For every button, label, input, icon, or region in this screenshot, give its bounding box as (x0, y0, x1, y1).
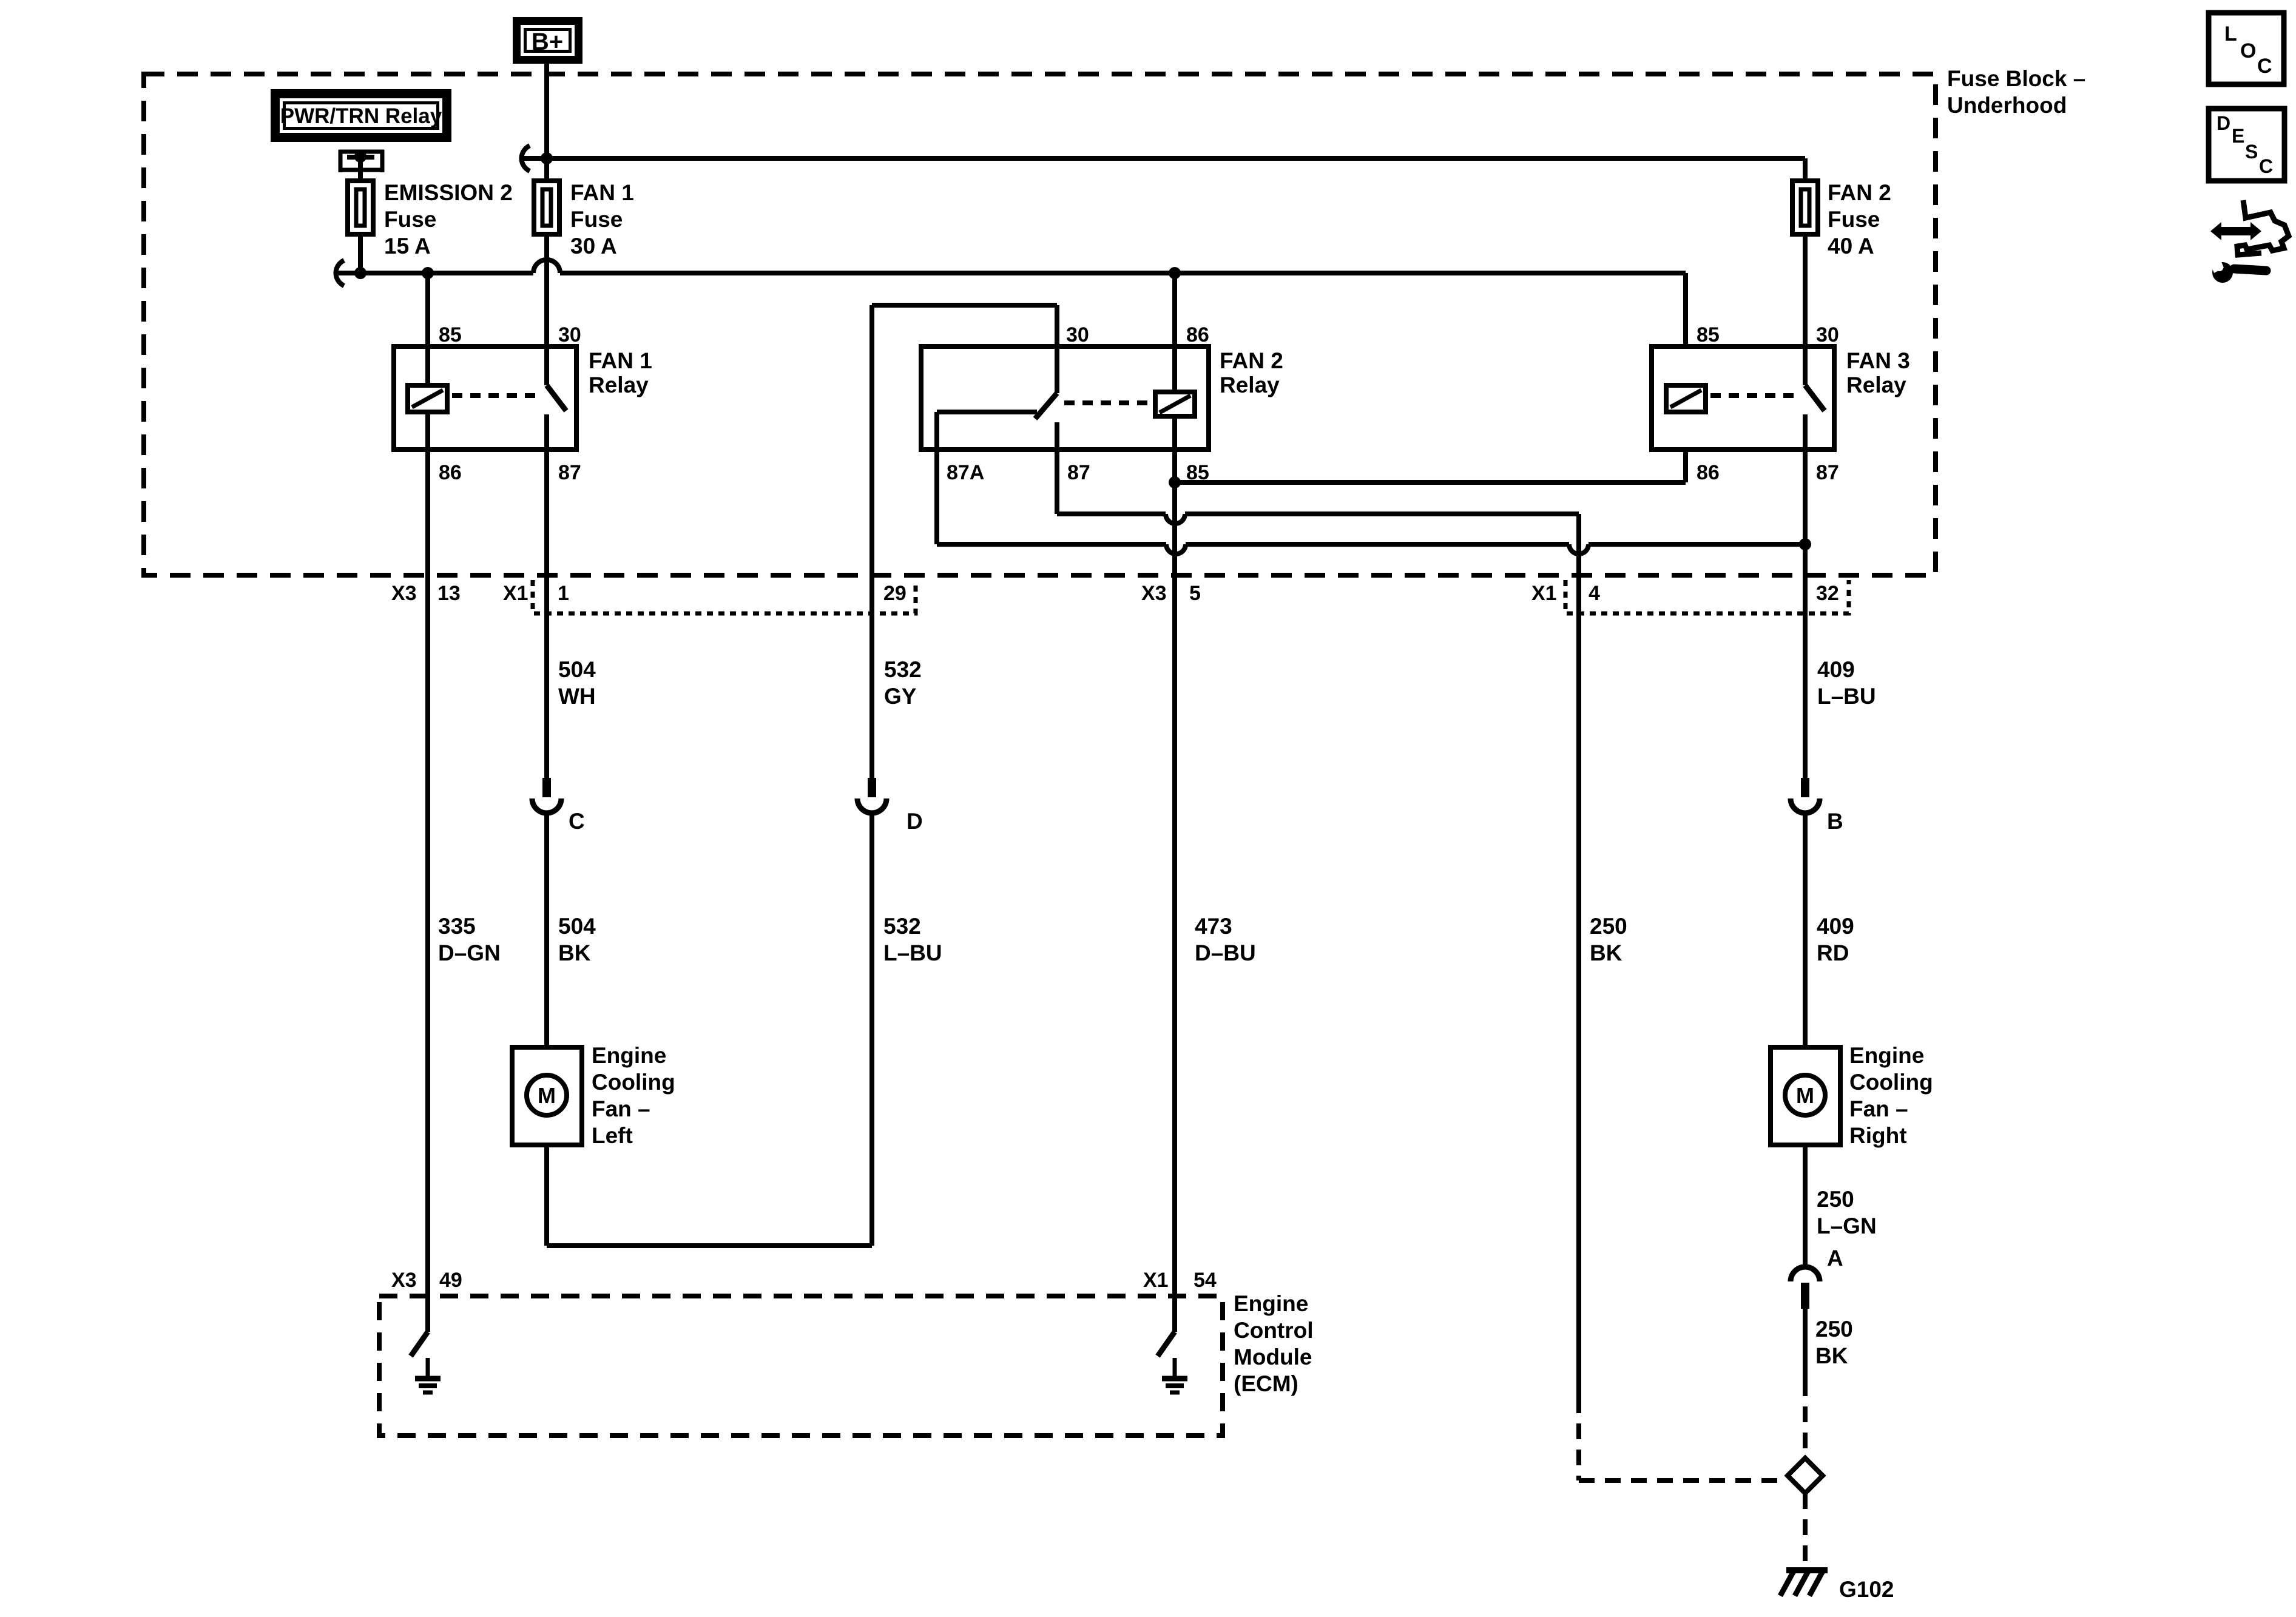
power node B+ (513, 17, 582, 64)
fuse block - underhood dashed boundary box (144, 74, 1936, 575)
svg-text:M: M (538, 1083, 556, 1108)
wire FAN 2 relay pin 30 feed (circuit 532 top) (872, 303, 1057, 308)
svg-text:BK: BK (1815, 1343, 1848, 1368)
svg-text:409: 409 (1817, 657, 1855, 682)
relay FAN 3 box (1652, 346, 1834, 450)
wire FAN 3 relay pin 87 down (circuit 409) (1803, 450, 1808, 779)
svg-text:40 A: 40 A (1828, 234, 1874, 258)
wire left fan motor return to connector D (544, 1145, 549, 1246)
svg-text:4: 4 (1589, 582, 1600, 605)
icon adjust/replace (double arrow, part outline, wrench) (2210, 222, 2261, 240)
svg-text:15 A: 15 A (384, 234, 431, 258)
svg-text:Underhood: Underhood (1947, 93, 2067, 118)
svg-text:Fuse: Fuse (384, 207, 436, 232)
svg-text:87A: 87A (947, 461, 984, 484)
relay FAN 2 coil (1172, 273, 1177, 392)
ECM low side driver (pin 54) (1172, 1296, 1177, 1332)
svg-text:FAN 2: FAN 2 (1828, 180, 1891, 205)
svg-text:Module: Module (1234, 1345, 1312, 1369)
svg-text:M: M (1796, 1083, 1814, 1108)
svg-text:C: C (2259, 155, 2273, 177)
wire right fan motor to connector A (circuit 250 L-GN) (1803, 1145, 1808, 1266)
svg-text:B+: B+ (532, 29, 563, 55)
connector X1 dashed outline (pins 4,32) (1565, 580, 1849, 613)
svg-text:EMISSION 2: EMISSION 2 (384, 180, 513, 205)
fuse FAN 1 30A symbol (534, 181, 559, 234)
svg-text:D–BU: D–BU (1195, 940, 1256, 965)
svg-text:504: 504 (558, 657, 596, 682)
svg-text:250: 250 (1590, 914, 1627, 939)
PWR/TRN Relay name box (271, 89, 451, 142)
svg-text:86: 86 (439, 461, 462, 484)
svg-text:29: 29 (883, 582, 907, 605)
motor Engine Cooling Fan - Right (1771, 1047, 1840, 1145)
svg-text:30: 30 (1066, 323, 1089, 346)
svg-text:30: 30 (558, 323, 581, 346)
fuse EMISSION 2 15A symbol (348, 181, 373, 234)
svg-text:G102: G102 (1839, 1577, 1894, 1602)
svg-text:Relay: Relay (1846, 373, 1906, 397)
svg-text:FAN 1: FAN 1 (570, 180, 634, 205)
svg-text:30 A: 30 A (570, 234, 617, 258)
junction dot FAN 2 pin 85 to FAN 3 pin 86 (1169, 476, 1181, 488)
svg-text:FAN 1: FAN 1 (589, 348, 652, 373)
svg-text:250: 250 (1817, 1187, 1854, 1212)
svg-text:13: 13 (437, 582, 461, 605)
svg-text:30: 30 (1816, 323, 1839, 346)
crossover hop of bus over FAN 1 fuse wire (533, 260, 560, 273)
wire FAN 2 pin 85 to FAN 3 pin 86 (1175, 480, 1686, 485)
svg-text:85: 85 (1697, 323, 1720, 346)
svg-text:Cooling: Cooling (1849, 1070, 1933, 1095)
svg-text:D: D (907, 809, 923, 834)
dashed wire splice to ground G102 (1803, 1493, 1808, 1567)
PWR/TRN relay output terminal bracket (339, 150, 343, 172)
wire connector A down (circuit 250 BK) (1803, 1309, 1808, 1380)
svg-text:32: 32 (1816, 582, 1839, 605)
svg-text:L–GN: L–GN (1817, 1214, 1877, 1238)
junction dot bus to FAN 1 relay pin 85 (422, 267, 434, 279)
continuation hook left end of EMISSION 2 bus (336, 260, 345, 286)
inline connector D (868, 778, 876, 797)
wire B+ feed to FAN 2 fuse (top bus) (521, 156, 1805, 161)
wire connector B to right fan motor (circuit 409 RD) (1803, 813, 1808, 1047)
wire FAN 1 relay pin 87 down (circuit 504) (544, 450, 549, 779)
svg-text:473: 473 (1195, 914, 1232, 939)
svg-text:Engine: Engine (1234, 1291, 1308, 1316)
relay FAN 3 switch contact (1805, 385, 1825, 411)
junction dot B+ / FAN 2 fuse feed (541, 152, 553, 164)
svg-text:D–GN: D–GN (438, 940, 501, 965)
ECM internal ground (right) (1173, 1358, 1177, 1379)
svg-text:5: 5 (1189, 582, 1201, 605)
svg-text:Engine: Engine (1849, 1043, 1924, 1068)
svg-text:Control: Control (1234, 1318, 1314, 1343)
inline connector B (1801, 778, 1809, 797)
wire connector C to left fan motor (circuit 504 BK) (544, 813, 549, 1047)
svg-text:X3: X3 (391, 1269, 417, 1292)
svg-text:X3: X3 (1141, 582, 1167, 605)
svg-text:A: A (1827, 1246, 1843, 1271)
wire FAN 2 relay pin 87 to connector X1-4 (circuit 250) (1055, 450, 1059, 514)
junction dot bus at EMISSION 2 fuse (354, 267, 366, 279)
wire EMISSION 2 fuse to bus (358, 234, 363, 273)
wire PWR/TRN output to EMISSION 2 fuse (358, 157, 363, 181)
svg-text:C: C (569, 809, 585, 834)
svg-text:49: 49 (439, 1269, 462, 1292)
svg-text:L–BU: L–BU (883, 940, 942, 965)
relay FAN 2 87A contact bar (937, 410, 1037, 414)
svg-text:E: E (2232, 125, 2244, 147)
svg-text:X1: X1 (1143, 1269, 1169, 1292)
ECM dashed box (379, 1296, 1223, 1436)
svg-text:Fuse Block –: Fuse Block – (1947, 66, 2085, 91)
svg-text:D: D (2217, 112, 2230, 134)
svg-text:X3: X3 (391, 582, 417, 605)
svg-text:87: 87 (1067, 461, 1090, 484)
relay FAN 3 coil-contact dashed link (1710, 393, 1798, 398)
svg-text:WH: WH (558, 684, 596, 709)
svg-text:Engine: Engine (592, 1043, 666, 1068)
wire B+ down to FAN 1 fuse (544, 64, 549, 181)
ECM internal ground (left) (426, 1358, 430, 1379)
svg-text:87: 87 (1816, 461, 1839, 484)
legend box LOC (2209, 13, 2284, 84)
relay FAN 1 box (394, 346, 576, 450)
svg-text:S: S (2245, 141, 2258, 163)
svg-text:L: L (2224, 22, 2237, 46)
svg-text:532: 532 (884, 657, 922, 682)
relay FAN 2 coil-contact dashed link (1064, 400, 1150, 405)
svg-text:532: 532 (883, 914, 921, 939)
connector X1 dashed outline (pins 1,29) (533, 580, 916, 613)
dashed wire X1-4 branch to splice (1576, 1397, 1581, 1480)
continuation hook left end of B+ feed line (522, 146, 530, 171)
bus wire EMISSION 2 fuse output (right part) (560, 271, 1686, 275)
svg-text:PWR/TRN Relay: PWR/TRN Relay (280, 104, 442, 128)
svg-text:Relay: Relay (1220, 373, 1280, 397)
svg-text:C: C (2257, 55, 2272, 78)
svg-text:Fuse: Fuse (1828, 207, 1880, 232)
ground G102 symbol (1786, 1567, 1828, 1573)
svg-text:54: 54 (1194, 1269, 1217, 1292)
wire FAN 2 fuse to FAN 3 relay pin 30 (1803, 234, 1808, 385)
dashed wire connector A branch to splice (1803, 1380, 1808, 1457)
relay FAN 3 coil (1666, 385, 1706, 412)
svg-text:FAN 2: FAN 2 (1220, 348, 1283, 373)
wire FAN 2 relay pin 85 down (circuit 473) (1172, 416, 1177, 1332)
junction dot bus to FAN 2 relay pin 86 (1169, 267, 1181, 279)
svg-text:(ECM): (ECM) (1234, 1371, 1298, 1396)
svg-text:Cooling: Cooling (592, 1070, 675, 1095)
svg-text:1: 1 (558, 582, 569, 605)
svg-text:Fuse: Fuse (570, 207, 623, 232)
svg-text:409: 409 (1817, 914, 1854, 939)
junction dot FAN 3 pin 87 wire (1799, 538, 1811, 550)
svg-text:L–BU: L–BU (1817, 684, 1876, 709)
svg-text:RD: RD (1817, 940, 1849, 965)
relay FAN 1 coil-contact dashed link (452, 393, 540, 398)
legend box DESC (2209, 109, 2284, 181)
wire FAN 2 relay pin 87A to FAN 3 pin 87 (circuit 409) (934, 450, 939, 544)
svg-text:GY: GY (884, 684, 917, 709)
motor Engine Cooling Fan - Left (512, 1047, 582, 1145)
ECM low side driver (pin 49) (425, 1296, 430, 1332)
svg-text:BK: BK (1590, 940, 1622, 965)
svg-text:Fan –: Fan – (592, 1096, 650, 1121)
relay FAN 1 coil (425, 273, 430, 385)
svg-text:O: O (2240, 39, 2256, 62)
wire FAN 1 fuse to FAN 1 relay pin 30 (544, 234, 549, 385)
inline connector C (542, 778, 551, 797)
svg-text:250: 250 (1815, 1317, 1853, 1342)
fuse FAN 2 40A symbol (1792, 181, 1818, 234)
svg-text:Left: Left (592, 1123, 633, 1148)
bus wire EMISSION 2 fuse output (left part) (336, 271, 533, 275)
wire FAN 1 relay pin 86 to ECM (circuit 335) (425, 412, 430, 1332)
svg-text:X1: X1 (1531, 582, 1557, 605)
svg-text:B: B (1827, 809, 1843, 834)
relay FAN 1 switch contact (547, 385, 566, 411)
svg-text:85: 85 (439, 323, 462, 346)
svg-text:FAN 3: FAN 3 (1846, 348, 1910, 373)
relay FAN 2 switch contact (1055, 346, 1059, 393)
relay FAN 2 box (921, 346, 1209, 450)
svg-text:86: 86 (1697, 461, 1720, 484)
inline connector A (1791, 1267, 1820, 1281)
svg-text:86: 86 (1186, 323, 1209, 346)
svg-text:Relay: Relay (589, 373, 649, 397)
wire bus down to FAN 3 relay pin 85 (1683, 273, 1688, 347)
svg-text:Fan –: Fan – (1849, 1096, 1908, 1121)
wire connector D down (circuit 532 L-BU) (869, 813, 874, 1246)
svg-text:BK: BK (558, 940, 591, 965)
svg-text:Right: Right (1849, 1123, 1907, 1148)
splice diamond (1788, 1458, 1823, 1493)
svg-text:87: 87 (558, 461, 581, 484)
svg-text:335: 335 (438, 914, 476, 939)
svg-text:X1: X1 (503, 582, 528, 605)
svg-text:504: 504 (558, 914, 596, 939)
